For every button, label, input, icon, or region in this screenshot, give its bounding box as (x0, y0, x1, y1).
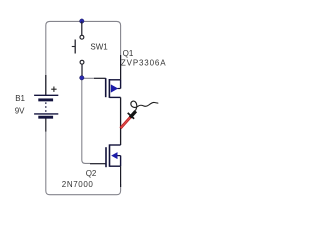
wire: +9V top rail from battery positive to Q1 source (46, 21, 121, 95)
measurement probe (red) on output node (121, 111, 136, 128)
switch SW1 (push button) (72, 35, 84, 64)
wire: ground/bottom rail from battery negative to Q2 source (46, 131, 121, 195)
node: gate junction dot (80, 76, 84, 80)
svg-text:ZVP3306A: ZVP3306A (121, 59, 166, 68)
Q1 source pin (from top rail) (120, 55, 122, 80)
Q2 source pin (to bottom rail) (120, 166, 122, 187)
svg-text:2N7000: 2N7000 (62, 180, 94, 189)
battery B1 bottom pin (45, 118, 47, 131)
op: transistor Q1 ZVP3306A p-channel MOSFET (106, 78, 121, 98)
node: top junction dot (80, 19, 84, 23)
wire: Q1 drain to Q2 drain (output node) (120, 97, 122, 145)
wire: gate net from switch to Q1 gate (83, 77, 95, 79)
Q2 gate pin (90, 163, 106, 165)
switch SW1 bottom pin (81, 64, 83, 78)
battery B1 plus sign (51, 87, 56, 92)
battery B1 top pin (45, 75, 47, 95)
battery B1 (34, 95, 58, 117)
probe cord (curly wire) (131, 101, 158, 111)
svg-text:B1: B1 (15, 94, 25, 103)
svg-text:SW1: SW1 (90, 43, 108, 52)
wire: gate net from switch down to Q2 gate (82, 79, 90, 163)
svg-text:Q1: Q1 (123, 49, 134, 58)
svg-text:Q2: Q2 (86, 169, 97, 178)
Q1 gate pin (94, 77, 106, 79)
transistor Q2 2N7000 n-channel MOSFET (106, 144, 121, 167)
svg-text:9V: 9V (15, 107, 25, 116)
switch SW1 top pin (81, 21, 83, 35)
